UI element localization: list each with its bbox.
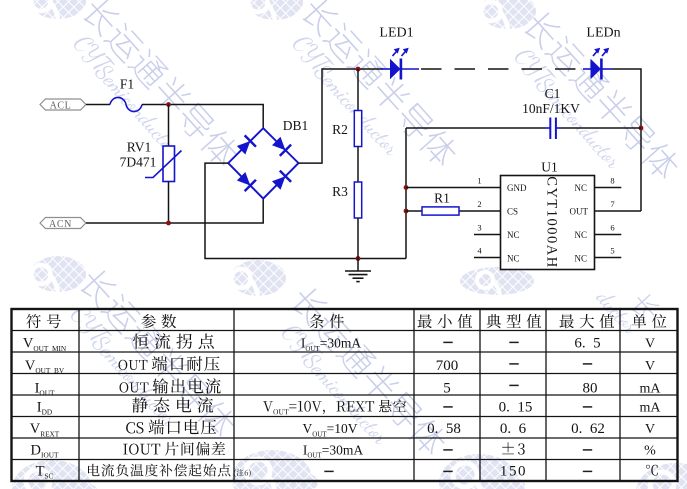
LED LED1 [379, 26, 419, 80]
wire dashed LED string [421, 68, 576, 70]
wire R2 to R3 [357, 147, 359, 183]
svg-text:GND: GND [507, 183, 527, 193]
svg-text:IDD: IDD [37, 399, 52, 416]
svg-text:RV1: RV1 [127, 140, 151, 155]
wire junction to R2 [357, 69, 359, 111]
svg-text:1: 1 [477, 176, 481, 186]
pin 6 stub [595, 234, 622, 236]
svg-text:0. 6: 0. 6 [500, 421, 527, 437]
svg-text:V: V [645, 337, 655, 352]
wire pin 1 GND [406, 187, 501, 189]
svg-text:IOUT=30mA: IOUT=30mA [301, 336, 362, 353]
svg-text:10nF/1KV: 10nF/1KV [522, 101, 580, 116]
svg-text:NC: NC [574, 183, 587, 193]
svg-text:C1: C1 [545, 86, 561, 101]
node ACL junction [166, 102, 171, 107]
node pin2 junction [404, 209, 409, 214]
node ground junction [356, 256, 361, 261]
svg-text:V: V [645, 359, 655, 374]
svg-text:0. 58: 0. 58 [427, 421, 461, 437]
svg-text:OUT: OUT [570, 207, 589, 217]
fuse F1 [110, 77, 142, 112]
wire junction to RV1 [168, 105, 170, 147]
svg-text:3: 3 [477, 223, 481, 233]
node R2 top junction [356, 67, 361, 72]
wire fuse to bridge top [142, 105, 263, 130]
net label ACN [40, 218, 86, 230]
pin 5 stub [595, 257, 622, 259]
wire bridge right up to LED rail [299, 69, 384, 163]
svg-text:IOUT: IOUT [35, 380, 55, 397]
svg-text:R3: R3 [332, 184, 348, 199]
svg-text:%: % [644, 443, 656, 458]
bridge rectifier DB1 [228, 118, 308, 199]
LED LEDn [583, 26, 621, 80]
svg-text:CYT1000AH: CYT1000AH [544, 176, 560, 268]
svg-text:DIOUT: DIOUT [31, 442, 59, 459]
wire LEDn to OUT rail [612, 69, 641, 211]
svg-text:0. 15: 0. 15 [499, 399, 533, 415]
svg-text:0. 62: 0. 62 [571, 421, 605, 437]
svg-text:mA: mA [640, 381, 662, 396]
svg-text:NC: NC [574, 254, 587, 264]
svg-text:NC: NC [507, 254, 520, 264]
svg-text:5: 5 [610, 246, 614, 256]
svg-text:7: 7 [610, 199, 614, 209]
varistor RV1 7D471 [120, 140, 182, 182]
pin 8 stub [595, 187, 622, 189]
ground [345, 259, 371, 282]
pin 3 stub [474, 234, 501, 236]
node C1 right junction [639, 126, 644, 131]
svg-text:CS: CS [507, 207, 518, 217]
svg-text:700: 700 [436, 358, 459, 374]
wire ACL to fuse [86, 104, 110, 106]
svg-text:F1: F1 [120, 77, 134, 92]
svg-text:4: 4 [477, 246, 482, 256]
pin 4 stub [474, 257, 501, 259]
svg-text:R1: R1 [434, 191, 450, 206]
svg-text:ACN: ACN [49, 219, 72, 230]
wire RV1 to ACN [168, 182, 170, 224]
wire pin 7 OUT [595, 210, 642, 212]
svg-text:NC: NC [574, 230, 587, 240]
resistor R1 [406, 191, 501, 216]
net label ACL [40, 99, 86, 111]
wire R3 to ground rail [357, 218, 359, 259]
svg-text:ACL: ACL [50, 100, 72, 111]
svg-text:150: 150 [500, 463, 527, 479]
wire GND rail vertical [405, 128, 407, 259]
capacitor C1 10nF/1KV [406, 86, 641, 139]
svg-text:LED1: LED1 [379, 26, 413, 41]
svg-text:8: 8 [610, 176, 614, 186]
svg-text:6: 6 [610, 223, 614, 233]
svg-text:IOUT=30mA: IOUT=30mA [303, 442, 364, 459]
wire ACN to bridge bottom [86, 199, 263, 223]
resistor R2 [332, 111, 362, 147]
svg-text:7D471: 7D471 [120, 155, 157, 170]
node pin1 junction [404, 185, 409, 190]
svg-text:DB1: DB1 [283, 118, 309, 133]
svg-text:6. 5: 6. 5 [574, 336, 600, 352]
svg-text:VOUT_MIN: VOUT_MIN [23, 336, 67, 353]
svg-text:2: 2 [477, 199, 481, 209]
svg-text:R2: R2 [332, 122, 348, 137]
svg-text:5: 5 [443, 380, 451, 396]
svg-text:NC: NC [507, 230, 520, 240]
svg-text:U1: U1 [541, 160, 558, 175]
svg-text:VOUT_BV: VOUT_BV [25, 358, 65, 375]
resistor R3 [332, 182, 362, 218]
svg-text:VREXT: VREXT [30, 421, 60, 438]
svg-text:VOUT=10V: VOUT=10V [302, 421, 357, 438]
node ACN junction [166, 221, 171, 226]
wire bridge left to ground rail [205, 163, 406, 258]
svg-text:mA: mA [640, 400, 662, 415]
svg-text:V: V [645, 422, 655, 437]
svg-text:80: 80 [583, 380, 598, 396]
svg-text:LEDn: LEDn [586, 26, 620, 41]
IC U1 body [501, 160, 595, 270]
